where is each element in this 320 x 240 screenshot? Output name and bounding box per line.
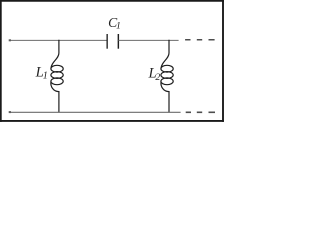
node: bottom-left open terminal: [9, 111, 11, 113]
svg-text:2: 2: [155, 72, 160, 83]
coil turn 3: [51, 78, 63, 85]
coil turn 3: [161, 78, 173, 85]
border frame (decorative): [0, 0, 224, 122]
capacitor C1: [107, 34, 118, 49]
svg-text:1: 1: [116, 20, 121, 31]
wire: bottom dashed continuation: [186, 111, 215, 113]
bottom lead wire: [51, 82, 59, 113]
coil turn 2: [161, 72, 173, 79]
node: top-left open terminal: [9, 39, 11, 41]
bottom lead wire: [161, 82, 169, 113]
coil turn 1: [161, 65, 173, 72]
wire: top rail right segment: [118, 39, 178, 41]
coil turn 1: [51, 65, 63, 72]
right plate: [117, 34, 119, 49]
inductor L2: [161, 40, 173, 113]
wire: bottom rail: [9, 111, 181, 113]
wire: top dashed continuation: [185, 39, 215, 41]
top lead wire: [161, 40, 169, 69]
svg-text:1: 1: [43, 71, 48, 82]
left plate: [106, 34, 108, 49]
top lead wire: [51, 40, 59, 69]
coil turn 2: [51, 72, 63, 79]
inductor L1: [51, 40, 63, 113]
wire: top rail left segment: [9, 39, 107, 41]
